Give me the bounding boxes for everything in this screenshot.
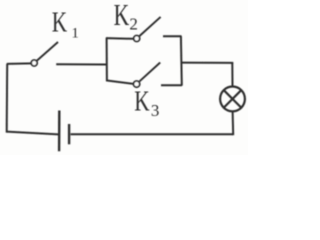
wire K2 left (106, 37, 134, 40)
wire K2 right contact (163, 35, 182, 37)
svg-text:K: K (134, 86, 149, 118)
wire middle main (56, 63, 107, 65)
wire K3 right contact (161, 84, 182, 86)
wire K1 left (7, 62, 32, 65)
switch K1 pivot circle (31, 60, 37, 66)
svg-text:K: K (52, 6, 67, 38)
switch K2 pivot circle (134, 36, 140, 42)
wire K3 left (106, 80, 134, 84)
switch K3 blade (139, 63, 160, 82)
switch K1 blade (37, 42, 58, 61)
wire bottom left (7, 132, 59, 135)
wire parallel-box left vertical (106, 38, 108, 81)
svg-text:1: 1 (71, 25, 79, 41)
wire right horizontal (182, 62, 234, 64)
switch K2 blade (140, 17, 161, 36)
wire left vertical (6, 64, 9, 133)
switch K3 pivot circle (134, 81, 140, 87)
wire right vertical upper (231, 63, 233, 87)
wire parallel-box right vertical (180, 36, 183, 86)
battery short plate (68, 124, 70, 144)
lamp L1 (220, 87, 245, 112)
battery long plate (58, 111, 61, 152)
svg-text:3: 3 (151, 101, 160, 120)
svg-text:2: 2 (129, 14, 138, 33)
wire bottom right (71, 133, 233, 135)
wire right vertical lower (232, 111, 235, 135)
svg-text:K: K (114, 0, 130, 32)
